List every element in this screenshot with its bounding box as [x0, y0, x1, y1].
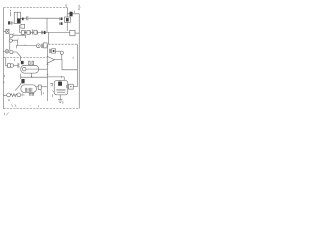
- svg-text:Fig.1.: Fig.1.: [77, 3, 81, 10]
